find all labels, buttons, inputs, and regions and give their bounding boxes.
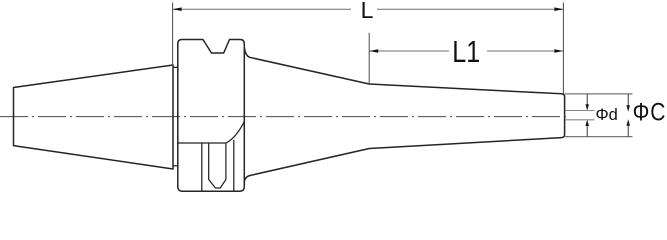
- step neck top: [173, 66, 178, 68]
- body fillet arc in section: [226, 122, 244, 144]
- taper shank cone: [14, 65, 174, 169]
- extension line C bottom: [565, 136, 633, 138]
- flange outline with v-groove notch on top: [178, 40, 245, 192]
- centerline axis: [0, 116, 569, 118]
- extension line left (gauge plane): [172, 3, 174, 67]
- taper body outline: [244, 48, 564, 182]
- arrow L1 right: [554, 49, 563, 53]
- groove wall v4: [233, 140, 235, 191]
- dimension L line: [173, 8, 351, 10]
- extension line L1 left: [368, 33, 370, 84]
- groove wall v1: [201, 143, 203, 191]
- groove bottom step line (section): [178, 142, 226, 144]
- arrow L right: [554, 7, 563, 11]
- extension line right (nose end): [562, 3, 564, 94]
- dimension d lower arrow: [586, 126, 588, 137]
- dimension C upper arrow: [627, 94, 629, 106]
- svg-text:L1: L1: [452, 35, 480, 69]
- arrow L1 left: [369, 49, 378, 53]
- groove wall v2 with slant: [209, 143, 226, 188]
- extension line d top: [566, 110, 595, 112]
- arrow L left: [173, 7, 182, 11]
- step neck bottom: [173, 165, 178, 167]
- dimension L1 line: [369, 50, 449, 52]
- extension line C top: [565, 93, 633, 95]
- dimension d upper arrow: [586, 94, 588, 105]
- svg-text:Φd: Φd: [596, 106, 618, 124]
- extension line d bottom: [566, 119, 595, 121]
- dimension C lower arrow: [627, 125, 629, 136]
- svg-text:L: L: [361, 0, 374, 23]
- svg-text:ΦC: ΦC: [633, 98, 667, 126]
